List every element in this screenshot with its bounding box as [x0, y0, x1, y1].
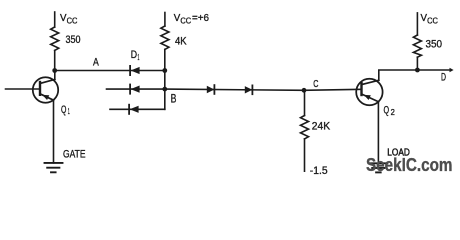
- node D junction: [415, 68, 420, 73]
- svg-text:Q: Q: [384, 104, 390, 116]
- wire (output D): [417, 68, 453, 84]
- svg-text:CC: CC: [427, 17, 438, 26]
- svg-text:24K: 24K: [312, 121, 331, 133]
- svg-text:V: V: [421, 12, 428, 24]
- wire (input stub, middle): [107, 88, 165, 90]
- node B: [162, 87, 176, 106]
- diode D1: [130, 49, 140, 75]
- resistor 4K: [161, 26, 187, 49]
- diode (series, 2nd): [245, 85, 253, 94]
- svg-text:A: A: [93, 57, 99, 69]
- resistor 350 (left): [51, 27, 81, 50]
- wire: [416, 57, 418, 70]
- svg-text:4K: 4K: [175, 35, 187, 47]
- svg-text:Q: Q: [61, 104, 67, 116]
- svg-text:350: 350: [426, 39, 443, 51]
- wire (input stub, bottom): [110, 108, 165, 110]
- svg-text:=+6: =+6: [192, 12, 209, 24]
- svg-text:CC: CC: [180, 17, 191, 26]
- svg-text:D: D: [441, 72, 446, 84]
- transistor Q2: [356, 79, 395, 117]
- wire: [6, 88, 41, 90]
- power VCC=+6: [174, 12, 209, 26]
- wire: [304, 139, 306, 171]
- wire (Q2 emitter): [377, 102, 379, 164]
- wire (Q2 collector to D junction): [379, 70, 418, 80]
- resistor 24K: [301, 116, 331, 139]
- wire: [53, 100, 55, 163]
- svg-text:C: C: [313, 78, 318, 90]
- svg-text:GATE: GATE: [63, 148, 86, 160]
- diode (series, 1st): [207, 85, 215, 94]
- svg-text:V: V: [60, 12, 67, 24]
- wire (C to Q2 base): [304, 89, 362, 90]
- svg-text:1: 1: [138, 53, 140, 62]
- ground (GATE): [45, 148, 86, 172]
- svg-text:D: D: [131, 49, 137, 61]
- wire: [55, 70, 165, 72]
- wire: [416, 13, 418, 35]
- svg-text:-1.5: -1.5: [310, 165, 328, 177]
- wire: [54, 71, 56, 80]
- diode (input, middle): [130, 85, 140, 94]
- wire (B to C): [165, 89, 304, 90]
- svg-text:1: 1: [68, 107, 70, 116]
- wire: [54, 50, 56, 70]
- svg-text:B: B: [171, 91, 177, 105]
- wire: [54, 12, 56, 27]
- power VCC (left): [60, 12, 78, 26]
- resistor 350 (right): [413, 35, 442, 57]
- node A: [52, 57, 99, 73]
- node C: [302, 78, 319, 93]
- ground (load): [369, 163, 387, 172]
- transistor Q1: [33, 77, 70, 116]
- svg-text:V: V: [174, 12, 181, 24]
- power VCC (right): [421, 12, 439, 26]
- wire: [164, 13, 166, 27]
- svg-text:CC: CC: [67, 17, 78, 26]
- wire: [304, 90, 306, 115]
- diode (input, bottom): [129, 105, 139, 114]
- svg-text:SeekIC.com: SeekIC.com: [366, 155, 453, 175]
- svg-text:2: 2: [391, 108, 396, 117]
- node (4K / D1 junction): [162, 68, 167, 73]
- wire: [164, 49, 166, 109]
- svg-text:350: 350: [66, 34, 81, 46]
